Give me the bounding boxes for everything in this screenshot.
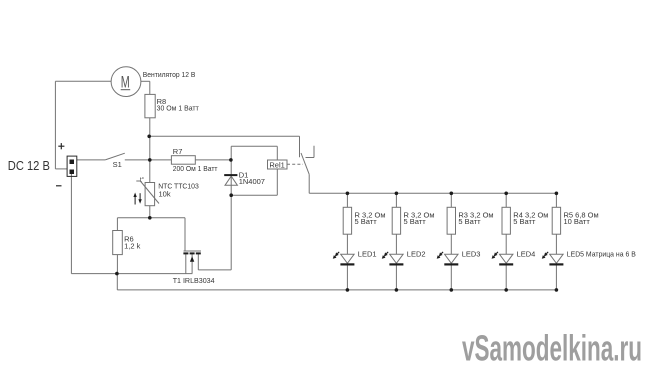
svg-text:5 Ватт: 5 Ватт bbox=[355, 217, 378, 226]
svg-text:200 Ом 1 Ватт: 200 Ом 1 Ватт bbox=[173, 164, 218, 173]
svg-text:T1 IRLB3034: T1 IRLB3034 bbox=[173, 276, 215, 285]
svg-text:5 Ватт: 5 Ватт bbox=[513, 217, 536, 226]
svg-text:1N4007: 1N4007 bbox=[239, 177, 265, 186]
svg-text:10 Ватт: 10 Ватт bbox=[564, 217, 591, 226]
svg-text:5 Ватт: 5 Ватт bbox=[458, 217, 481, 226]
svg-text:M: M bbox=[121, 73, 130, 92]
svg-text:vSamodelkina.ru: vSamodelkina.ru bbox=[462, 328, 642, 369]
svg-text:5 Ватт: 5 Ватт bbox=[404, 217, 427, 226]
svg-text:LED2: LED2 bbox=[407, 250, 426, 259]
svg-text:Rel1: Rel1 bbox=[269, 160, 284, 169]
svg-text:R7: R7 bbox=[173, 147, 183, 156]
svg-text:LED5 Матрица на 6 В: LED5 Матрица на 6 В bbox=[567, 250, 636, 259]
svg-text:1,2 k: 1,2 k bbox=[124, 242, 141, 251]
svg-text:LED4: LED4 bbox=[517, 250, 536, 259]
svg-text:LED3: LED3 bbox=[462, 250, 481, 259]
svg-text:10k: 10k bbox=[159, 190, 171, 199]
svg-text:DC 12 В: DC 12 В bbox=[8, 158, 50, 173]
svg-text:t°: t° bbox=[140, 177, 145, 183]
svg-text:Вентилятор 12 В: Вентилятор 12 В bbox=[143, 70, 196, 79]
svg-text:S1: S1 bbox=[113, 160, 122, 169]
svg-text:30 Ом 1 Ватт: 30 Ом 1 Ватт bbox=[157, 104, 200, 113]
svg-text:LED1: LED1 bbox=[358, 250, 377, 259]
